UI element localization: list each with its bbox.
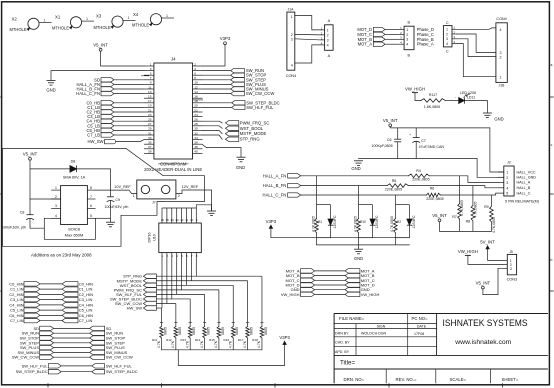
svg-text:Title=: Title= <box>340 360 355 367</box>
resistor R14 4.7K 0805 <box>195 323 211 350</box>
svg-text:0805: 0805 <box>264 327 268 335</box>
svg-text:0805: 0805 <box>221 327 225 335</box>
svg-text:37: 37 <box>148 145 152 149</box>
resistor R11 4.7K 0805 <box>152 323 167 350</box>
svg-text:CON3: CON3 <box>507 277 518 281</box>
clamp resistor R1 4.7K,0805 with zener diode <box>311 176 337 245</box>
svg-text:12: 12 <box>180 218 184 222</box>
svg-text:6: 6 <box>90 204 92 208</box>
resistor R15 4.7K 0805 <box>209 323 225 350</box>
resistor R117 1.8K,0805 <box>421 93 445 109</box>
svg-text:VW_HIGH: VW_HIGH <box>281 292 300 297</box>
net flag SD (J4 pin 7) <box>94 77 144 82</box>
svg-text:C7_LB: C7_LB <box>87 133 100 138</box>
svg-text:4.7K: 4.7K <box>214 340 218 348</box>
svg-text:4: 4 <box>327 43 329 47</box>
wire pin8 to 10V_REF / J7 <box>96 190 137 193</box>
svg-text:12S4PC: 12S4PC <box>333 215 337 229</box>
wire V5_INT to diode rail <box>30 160 111 199</box>
clamp ground rail <box>317 245 410 249</box>
svg-text:V5_INT: V5_INT <box>432 213 447 218</box>
svg-text:J5: J5 <box>509 250 513 254</box>
svg-text:34: 34 <box>194 136 198 140</box>
wire J1A pin1 to A pin1 <box>295 16 321 30</box>
svg-text:HALL_B: HALL_B <box>517 186 531 190</box>
svg-text:28: 28 <box>194 122 198 126</box>
svg-text:0805: 0805 <box>163 327 167 335</box>
svg-text:1: 1 <box>44 18 46 22</box>
svg-text:32: 32 <box>194 131 198 135</box>
net tie SW_MINUS <box>17 350 127 355</box>
svg-text:1: 1 <box>327 28 329 32</box>
wire ladder row HW_SW <box>156 259 162 323</box>
net flag SW_HLF_FUL (J4 pin 20) <box>203 105 275 110</box>
wire pin5 to ground <box>96 217 111 219</box>
svg-text:STP_RNG: STP_RNG <box>240 137 260 142</box>
svg-text:8: 8 <box>194 76 196 80</box>
svg-text:11: 11 <box>185 218 188 222</box>
svg-text:+: + <box>409 133 411 137</box>
svg-text:c: c <box>551 143 553 147</box>
wire J4 pin 3 to ground <box>51 71 144 80</box>
svg-text:0805: 0805 <box>192 327 196 335</box>
net tie C7_LIN <box>10 318 93 323</box>
svg-text:J1B: J1B <box>499 84 506 88</box>
svg-text:100uF,63V, pth: 100uF,63V, pth <box>2 226 26 230</box>
net tie SW_RUN <box>22 331 123 336</box>
svg-text:100uF,63V, pth: 100uF,63V, pth <box>105 205 129 209</box>
wire VW_HIGH to CON3 pin2 <box>468 255 503 264</box>
svg-text:25: 25 <box>148 118 152 122</box>
net flag C6_HB (J4 pin 29) <box>87 128 145 133</box>
resistor R13 4.7K 0805 <box>180 323 196 350</box>
net tie SW_STEP_BLDC <box>16 369 138 374</box>
svg-text:J2: J2 <box>507 161 511 165</box>
svg-text:C1_LIN: C1_LIN <box>10 287 24 292</box>
svg-text:V5_INT: V5_INT <box>383 118 398 123</box>
power flag V5_INT (to CON3 pin3) <box>476 280 491 289</box>
net flag C5_LB (J4 pin 27) <box>87 123 144 128</box>
wire V3P3 to clamp bottoms <box>271 228 410 237</box>
svg-text:4: 4 <box>506 186 508 190</box>
svg-text:16: 16 <box>161 218 165 222</box>
connector J4 CON40PSAM 20X2 HEADER-DUAL IN LINE <box>144 57 203 172</box>
svg-text:12: 12 <box>194 85 198 89</box>
svg-text:C7_LIN: C7_LIN <box>10 318 24 323</box>
svg-text:R12: R12 <box>166 338 172 342</box>
op-amp U? regulator IC SOIC8 Max 650M <box>51 186 95 238</box>
svg-text:8: 8 <box>90 186 92 190</box>
svg-text:C6_HIN: C6_HIN <box>9 313 23 318</box>
capacitor C8 100uF,63V, pth (polarized) <box>2 211 34 230</box>
wire HALL_C row <box>301 193 498 195</box>
svg-text:3: 3 <box>327 38 329 42</box>
svg-text:3: 3 <box>500 51 502 55</box>
svg-text:4.7K,0805: 4.7K,0805 <box>474 201 478 217</box>
svg-text:R14: R14 <box>195 338 201 342</box>
resistor R5 220E,0805 <box>385 179 408 192</box>
resistor R4 220E,0805 <box>408 169 429 182</box>
svg-text:0805: 0805 <box>206 327 210 335</box>
svg-text:3: 3 <box>55 204 57 208</box>
svg-text:2: 2 <box>194 62 196 66</box>
net flag MSTP_MODE (J4 pin 30) <box>203 130 267 136</box>
svg-text:2: 2 <box>291 33 293 37</box>
svg-text:1: 1 <box>55 186 57 190</box>
net flag HW_SW (J4 pin 33) <box>87 139 144 144</box>
svg-text:CON4: CON4 <box>496 17 507 21</box>
resistor R8 4.7K,0805 (pull-up) <box>466 186 478 232</box>
net tie C4_HIN <box>9 302 93 307</box>
mounting hole X1 MTHOLE <box>52 15 94 31</box>
wire ladder row WST_BOOL <box>156 259 233 323</box>
svg-text:4.7K: 4.7K <box>243 340 247 348</box>
svg-text:R15: R15 <box>209 338 215 342</box>
no-connect tick J4 pin 16 <box>193 99 203 101</box>
svg-text:SHEET=: SHEET= <box>502 377 519 382</box>
svg-text:PC NO=: PC NO= <box>412 316 429 321</box>
wire C8 to pin4 tail <box>30 218 96 239</box>
svg-text:17F08: 17F08 <box>414 332 424 336</box>
revision note box <box>3 149 205 247</box>
svg-text:2: 2 <box>327 33 329 37</box>
ground (below J4 right) <box>236 157 246 170</box>
svg-text:20: 20 <box>194 104 198 108</box>
block C (4-pin) <box>443 21 456 54</box>
wire ladder row SW_HLF_FUL <box>156 259 204 323</box>
svg-text:4.7K,0805: 4.7K,0805 <box>311 216 315 232</box>
svg-text:X4: X4 <box>133 12 139 17</box>
wire C pin3 to J1B pin2 <box>457 39 496 57</box>
svg-text:4.7K: 4.7K <box>157 340 161 348</box>
net tie SW_STEP <box>20 340 125 345</box>
svg-text:4: 4 <box>55 214 57 218</box>
svg-text:15: 15 <box>166 218 170 222</box>
net label Phase_C (block B output) <box>417 32 434 37</box>
svg-text:X3: X3 <box>96 14 102 19</box>
net flag SW_MINUS (J4 pin 12) <box>203 87 269 92</box>
connector J2 5 PIN RELIMATE(M) <box>498 161 539 204</box>
svg-text:36: 36 <box>194 141 198 145</box>
svg-text:10: 10 <box>194 81 198 85</box>
svg-text:13: 13 <box>148 90 152 94</box>
svg-text:MTHOLE: MTHOLE <box>52 26 69 31</box>
svg-text:0805: 0805 <box>250 327 254 335</box>
wire ladder row SW_STEP_BLDC <box>156 259 190 323</box>
svg-text:FILE NAME=: FILE NAME= <box>339 316 365 321</box>
net flag C7_LB (J4 pin 31) <box>87 133 144 138</box>
svg-text:1: 1 <box>128 16 130 20</box>
svg-text:MTHOLE: MTHOLE <box>132 23 149 28</box>
net tie C2_HIN <box>9 292 93 297</box>
svg-text:12S4PC: 12S4PC <box>412 215 416 229</box>
svg-text:www.ishnatek.com: www.ishnatek.com <box>454 339 511 346</box>
svg-text:LD11: LD11 <box>467 96 475 100</box>
net tie VW_HIGH (motor group) <box>281 292 380 297</box>
svg-text:WOLOCH DGN: WOLOCH DGN <box>361 331 387 335</box>
svg-text:R13: R13 <box>180 338 186 342</box>
net flag SW_PLUS (J4 pin 10) <box>203 82 267 87</box>
wire ladder row SW_CW_CCW <box>156 259 175 323</box>
svg-text:SMA 60V, 1A: SMA 60V, 1A <box>63 175 86 179</box>
svg-text:9: 9 <box>150 81 152 85</box>
ground (clamp rail) <box>354 249 363 261</box>
wire HALL_B row <box>301 186 498 188</box>
svg-text:5: 5 <box>90 214 92 218</box>
svg-text:C3_LIN: C3_LIN <box>79 297 93 302</box>
svg-text:12V_REF: 12V_REF <box>182 185 199 189</box>
svg-text:C9: C9 <box>115 198 120 202</box>
svg-text:R1: R1 <box>318 220 322 224</box>
svg-text:2: 2 <box>506 176 508 180</box>
svg-text:22: 22 <box>194 108 198 112</box>
net flag SW_HLF_FUL (resistor ladder row) <box>116 292 156 297</box>
jumper J7 10V_REF/12V_REF selector <box>133 180 180 205</box>
ground (J7 / U10 bus) <box>207 211 216 216</box>
svg-text:38: 38 <box>194 145 198 149</box>
svg-text:100KpF,0805: 100KpF,0805 <box>372 144 393 148</box>
svg-text:R5: R5 <box>392 179 397 183</box>
svg-text:V3P3: V3P3 <box>220 36 231 41</box>
net flag SW_STOP (J4 pin 6) <box>203 73 267 78</box>
svg-text:40: 40 <box>194 150 198 154</box>
wire J4 pin 2 to V3P3 <box>203 45 226 66</box>
net tie SW_PLUS <box>20 345 125 350</box>
svg-text:CHD. BY: CHD. BY <box>335 341 350 345</box>
wire C pin2 to J1B pin3 <box>457 34 496 52</box>
resistor R6 220E,0805 <box>426 187 443 201</box>
power flag V3P3 (ladder rail) <box>279 335 290 345</box>
svg-text:35: 35 <box>148 141 152 145</box>
svg-text:14: 14 <box>194 90 198 94</box>
svg-text:0805: 0805 <box>178 327 182 335</box>
svg-text:30: 30 <box>194 127 198 131</box>
svg-text:A: A <box>328 19 331 23</box>
wire J4 pin 36 to ground <box>203 145 242 157</box>
svg-text:4: 4 <box>194 67 196 71</box>
svg-text:R16: R16 <box>224 338 230 342</box>
svg-text:4: 4 <box>406 43 408 47</box>
svg-text:1: 1 <box>166 14 168 18</box>
svg-text:PWM_FRQ_SC: PWM_FRQ_SC <box>240 120 270 125</box>
svg-text:LED,1206: LED,1206 <box>460 91 476 95</box>
wire V5_INT to J4 pin 1 <box>101 51 144 66</box>
svg-text:V3P3: V3P3 <box>279 335 290 340</box>
power flag V5_INT (caps rail) <box>383 118 398 127</box>
svg-text:R9: R9 <box>484 205 489 209</box>
svg-text:3: 3 <box>150 67 152 71</box>
svg-text:2: 2 <box>406 33 408 37</box>
net flag PWM_FRQ_SC (resistor ladder row) <box>114 287 157 292</box>
svg-text:REV. NO.=: REV. NO.= <box>396 377 417 382</box>
svg-text:2: 2 <box>55 195 57 199</box>
no-connect tick J4 pin 5 <box>141 75 149 77</box>
svg-text:GND: GND <box>236 165 245 170</box>
svg-text:Additions as on 23rd May: Additions as on 23rd May 2008 <box>31 252 92 257</box>
net flag HALL_B_FN (row to J2 pin4) <box>263 183 301 188</box>
net flag C0_HB (J4 pin 17) <box>87 100 145 105</box>
svg-text:47uF,SMD CAN: 47uF,SMD CAN <box>419 145 445 149</box>
svg-text:7: 7 <box>90 195 92 199</box>
svg-text:5 PIN RELIMATE(M): 5 PIN RELIMATE(M) <box>505 199 539 203</box>
net label 10V_REF <box>114 185 131 189</box>
wire ladder row STP_RNG <box>156 259 262 323</box>
wire regulator pin2 to C8 <box>30 199 61 215</box>
svg-text:14: 14 <box>170 218 174 222</box>
mounting hole X4 MTHOLE <box>132 12 174 27</box>
wire J1A pin4 to A pin4 <box>295 45 321 63</box>
svg-text:4.7K,0805: 4.7K,0805 <box>460 200 464 216</box>
net flag HALL_C_FN (J4 pin 13) <box>76 91 144 96</box>
svg-text:5: 5 <box>150 72 152 76</box>
svg-text:220E,0805: 220E,0805 <box>412 178 429 182</box>
svg-text:24: 24 <box>194 113 198 117</box>
svg-text:4.7K,0805: 4.7K,0805 <box>390 216 394 232</box>
net flag HALL_A_FN (row to J2 pin3) <box>263 173 301 178</box>
net flag SW_CW_CCW (resistor ladder row) <box>115 301 157 306</box>
svg-text:1: 1 <box>406 28 408 32</box>
svg-text:220E,0805: 220E,0805 <box>426 197 443 201</box>
svg-text:DRN. NO=: DRN. NO= <box>344 377 365 382</box>
svg-text:R2: R2 <box>397 220 401 224</box>
svg-text:VW_HIGH: VW_HIGH <box>405 86 425 91</box>
resistor R16 4.7K 0805 <box>224 323 240 350</box>
svg-text:19: 19 <box>148 104 152 108</box>
wire ladder row PWM_FRQ_SC <box>156 259 219 323</box>
net tie MOT_A (motor group) <box>286 268 375 273</box>
svg-text:V5_INT: V5_INT <box>93 43 108 48</box>
svg-text:6: 6 <box>194 72 196 76</box>
svg-text:33: 33 <box>148 136 152 140</box>
svg-text:3: 3 <box>406 38 408 42</box>
power flag V5_INT (top, to J4 pin 1) <box>93 43 108 52</box>
wire 5V_INT to CON3 pin1 <box>488 249 503 260</box>
svg-text:a: a <box>551 63 553 67</box>
svg-text:VW_HIGH: VW_HIGH <box>361 292 380 297</box>
wire V5_INT rail <box>390 127 504 172</box>
svg-text:SW_HLF_FUL: SW_HLF_FUL <box>246 105 274 110</box>
svg-text:3: 3 <box>291 38 293 42</box>
svg-text:26: 26 <box>194 118 198 122</box>
wire C pin1 to J1B pin4 <box>457 28 496 29</box>
LED LD11 LED,1206 <box>455 91 476 104</box>
net flag SW_RUN (J4 pin 4) <box>203 68 265 73</box>
capacitor C6 100KpF,0805 <box>372 128 402 159</box>
net tie C3_LIN <box>10 297 93 302</box>
svg-text:V3P3: V3P3 <box>266 219 277 224</box>
net tie SW_HLF_FUL <box>22 363 133 368</box>
svg-text:12S4PC: 12S4PC <box>375 215 379 229</box>
net label Phase_D (block B output) <box>417 27 434 32</box>
wire J7 pin2 12V_REF to ground <box>176 190 212 211</box>
net flag HALL_B_FN (J4 pin 11) <box>76 87 144 92</box>
svg-text:4.7K: 4.7K <box>200 340 204 348</box>
svg-text:HALL_B_FN: HALL_B_FN <box>263 183 287 188</box>
wire pull-up rail to V5_INT <box>440 222 492 232</box>
capacitor C7 47uF,SMD CAN (polarized) <box>409 128 444 159</box>
svg-text:J7: J7 <box>152 201 156 205</box>
wire LD11 to ground <box>465 101 488 113</box>
svg-text:4.7K: 4.7K <box>186 340 190 348</box>
svg-text:MTHOLE: MTHOLE <box>10 27 27 32</box>
svg-text:1: 1 <box>506 171 508 175</box>
resistor R7 4.7K,0805 (pull-up) <box>452 176 464 232</box>
svg-text:2: 2 <box>446 32 448 36</box>
svg-text:10V_REF: 10V_REF <box>114 185 131 189</box>
svg-text:C: C <box>446 21 449 25</box>
svg-text:C6_HIN: C6_HIN <box>79 313 93 318</box>
wire V5_INT to CON3 pin3 <box>483 268 503 294</box>
svg-text:23: 23 <box>148 113 152 117</box>
svg-text:Phase_A: Phase_A <box>417 42 434 47</box>
svg-text:31: 31 <box>148 131 152 135</box>
net tie C1_LIN <box>10 287 93 292</box>
svg-text:R7: R7 <box>452 215 457 219</box>
resistor R17 4.7K 0805 <box>238 323 254 350</box>
svg-text:4: 4 <box>446 42 448 46</box>
net flag C1_LB (J4 pin 19) <box>87 105 144 110</box>
power flag V3P3 (to J4 pin 2) <box>220 36 231 45</box>
svg-text:R18: R18 <box>252 338 258 342</box>
resistor R12 4.7K 0805 <box>166 323 182 350</box>
svg-text:SCALE=: SCALE= <box>450 377 467 382</box>
wire J1A pin2 to A pin2 <box>295 33 321 36</box>
block A (4-pin) <box>320 19 333 58</box>
svg-text:4: 4 <box>291 63 293 67</box>
svg-text:GND: GND <box>354 256 363 261</box>
svg-text:R117: R117 <box>429 93 437 97</box>
net flag SW_STEP_BLDC (resistor ladder row) <box>110 296 156 301</box>
wire ladder row MSTP_MODE <box>156 259 247 323</box>
svg-text:16: 16 <box>194 95 198 99</box>
svg-text:11: 11 <box>148 85 151 89</box>
svg-text:15: 15 <box>148 95 152 99</box>
svg-text:DRN BY: DRN BY <box>335 331 349 335</box>
svg-text:39: 39 <box>148 150 152 154</box>
svg-text:13: 13 <box>175 218 179 222</box>
svg-text:5: 5 <box>506 192 508 196</box>
svg-text:MTHOLE: MTHOLE <box>94 25 111 30</box>
net flag WST_BOOL (resistor ladder row) <box>120 283 157 288</box>
net tie SD <box>33 326 111 331</box>
svg-text:20X2 HEADER-DUAL IN LINE: 20X2 HEADER-DUAL IN LINE <box>144 167 202 172</box>
svg-text:SW_STEP_BLDC: SW_STEP_BLDC <box>106 369 138 374</box>
net flag MOT_A (to block B) <box>358 42 400 47</box>
net flag MOT_D (to block B) <box>357 27 399 32</box>
svg-text:21: 21 <box>148 108 152 112</box>
wire HALL_A row <box>301 176 498 183</box>
svg-text:HALL_C_FN: HALL_C_FN <box>263 193 287 198</box>
svg-text:27: 27 <box>148 122 152 126</box>
svg-text:1: 1 <box>86 17 88 21</box>
svg-text:D8: D8 <box>71 159 76 163</box>
svg-text:3: 3 <box>446 37 448 41</box>
mounting hole X2 MTHOLE <box>10 17 52 32</box>
net tie SW_CW_CCW <box>12 355 133 360</box>
wire C pin4 to J1B pin1 <box>457 44 496 77</box>
net label 12V_REF <box>182 185 199 189</box>
svg-text:1: 1 <box>446 28 448 32</box>
svg-text:C: C <box>446 49 449 53</box>
svg-text:7: 7 <box>150 76 152 80</box>
net flag MSTP_MODE (resistor ladder row) <box>117 278 157 283</box>
connector J1A CON4 (top left of group) <box>286 8 297 78</box>
svg-text:1: 1 <box>150 62 152 66</box>
mounting hole X3 MTHOLE <box>94 14 136 30</box>
net tie SW_STOP <box>20 336 126 341</box>
svg-text:WST_BOOL: WST_BOOL <box>240 126 264 131</box>
svg-text:HALL_A: HALL_A <box>517 181 531 185</box>
